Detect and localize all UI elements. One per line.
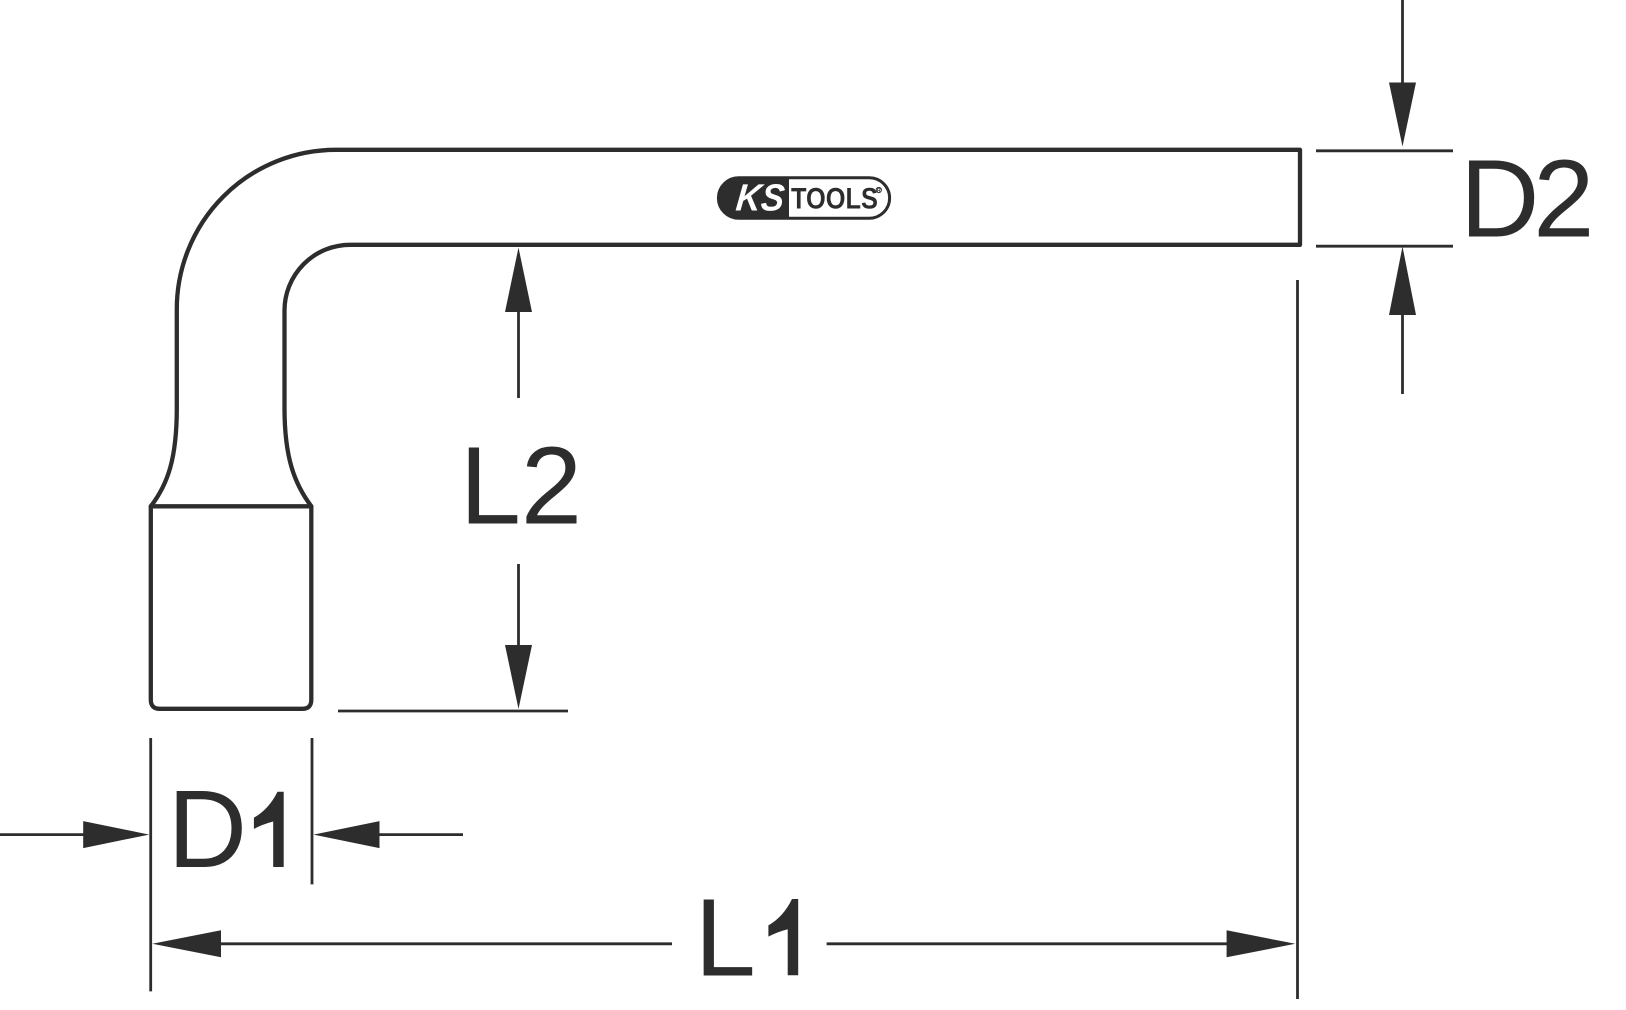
svg-text:KS: KS [734, 178, 787, 220]
svg-text:R: R [877, 188, 881, 194]
svg-text:L: L [695, 876, 756, 999]
svg-text:L2: L2 [460, 425, 582, 548]
svg-text:2: 2 [1533, 138, 1594, 261]
svg-text:D: D [1460, 138, 1539, 261]
svg-text:TOOLS: TOOLS [791, 182, 878, 215]
svg-text:D: D [168, 768, 247, 891]
